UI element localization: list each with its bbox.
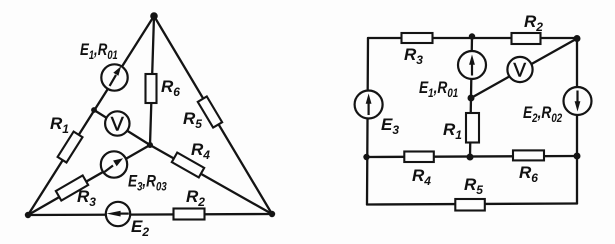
node bottom-left vertex	[25, 212, 31, 218]
svg-text:R6: R6	[519, 163, 538, 185]
svg-text:R2: R2	[186, 187, 205, 209]
voltmeter V (right)	[507, 57, 532, 82]
node mid-right (right)	[574, 153, 581, 160]
resistor R6 (right)	[513, 150, 544, 160]
source E3 (right)	[355, 91, 383, 119]
node below E1 (right)	[468, 95, 475, 102]
resistor R5	[198, 96, 222, 127]
resistor R2 (right)	[512, 33, 541, 44]
node top of E1 branch (right)	[469, 33, 475, 39]
svg-text:R4: R4	[412, 166, 431, 188]
svg-text:R1: R1	[50, 114, 69, 136]
resistor R5 (right)	[455, 199, 485, 211]
wire E1-R1 vertical branch	[470, 37, 472, 158]
resistor R4 (right)	[404, 152, 434, 163]
source E2	[106, 202, 130, 226]
wire right edge T-BR	[154, 16, 272, 214]
wire R6 branch T-C	[150, 16, 154, 145]
svg-text:R5: R5	[464, 175, 483, 197]
wire left edge (right circuit)	[367, 38, 368, 205]
svg-text:E3: E3	[381, 115, 399, 137]
node top vertex	[150, 12, 158, 20]
source E2,R02 (right)	[564, 87, 592, 115]
voltmeter V (left)	[105, 111, 129, 135]
wire top edge (right circuit)	[368, 37, 577, 39]
svg-text:R5: R5	[183, 109, 202, 131]
wire C-BR branch	[150, 145, 272, 214]
resistor R3	[56, 175, 88, 200]
node mid-center (right)	[467, 154, 474, 161]
node N1 on left edge	[91, 107, 97, 113]
wire voltmeter branch N1-C	[94, 110, 150, 145]
svg-text:E2: E2	[131, 217, 149, 239]
source E1,R01 (right)	[458, 51, 486, 79]
resistor R1 (right)	[466, 113, 479, 143]
svg-text:R4: R4	[191, 140, 210, 162]
wire bottom edge (right circuit)	[367, 204, 577, 205]
node bottom-right vertex	[269, 211, 275, 217]
svg-text:V: V	[513, 60, 526, 81]
resistor R2	[174, 209, 205, 220]
svg-text:E1,R01: E1,R01	[419, 79, 458, 101]
svg-text:E1,R01: E1,R01	[80, 41, 118, 63]
wire left edge T-BL	[28, 16, 154, 215]
wire middle horizontal (right circuit)	[367, 156, 577, 157]
wire BL-C branch	[28, 145, 150, 215]
svg-text:E2,R02: E2,R02	[523, 104, 562, 126]
node center C	[147, 142, 153, 148]
svg-text:E3,R03: E3,R03	[128, 172, 167, 194]
resistor R3 (right)	[402, 33, 433, 43]
svg-text:R2: R2	[524, 12, 543, 34]
resistor R6	[146, 74, 157, 103]
svg-text:R3: R3	[404, 45, 423, 67]
svg-text:V: V	[111, 114, 124, 136]
wire right edge (right circuit)	[576, 38, 578, 204]
wire voltmeter diagonal	[471, 39, 577, 99]
svg-text:R6: R6	[161, 77, 180, 99]
svg-text:R3: R3	[77, 187, 96, 209]
wire bottom edge BL-BR	[28, 214, 272, 215]
source E3,R03	[101, 151, 127, 177]
resistor R1	[58, 132, 83, 163]
source E1,R01	[101, 64, 127, 90]
node mid-left (right)	[363, 154, 369, 160]
resistor R4	[172, 153, 204, 178]
svg-text:R1: R1	[443, 120, 462, 142]
node top-right corner (right)	[574, 35, 581, 42]
